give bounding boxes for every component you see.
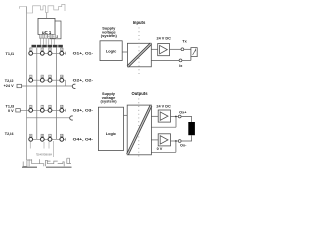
svg-text:0 V: 0 V [8, 109, 14, 113]
row 1 terminals [29, 51, 64, 55]
isolator diagonal (outputs) [128, 106, 152, 155]
svg-text:O3+, O3-: O3+, O3- [73, 109, 94, 113]
feed wire column A [36, 47, 38, 139]
svg-text:Ox-: Ox- [180, 144, 187, 148]
svg-text:O4+, O4-: O4+, O4- [73, 138, 94, 142]
row 1 clamp boxes [29, 48, 63, 51]
svg-text:Inputs: Inputs [133, 20, 146, 25]
isolator diagonal (inputs) [128, 44, 151, 67]
low bypass wire [151, 141, 176, 152]
microcontroller U2 (rear box) [50, 21, 61, 39]
wire logic to isolator (inputs) [122, 51, 127, 53]
load RL [188, 122, 195, 135]
driver amp high side [158, 110, 170, 122]
row 2 terminals [29, 78, 64, 82]
terminal Ox- [178, 140, 181, 143]
wire Ox+ to load [181, 117, 192, 123]
microcontroller U1 box [38, 18, 55, 34]
svg-text:µC 1: µC 1 [42, 30, 52, 35]
row 4 clamp boxes [29, 134, 63, 137]
+24V rail jumper contact arc [72, 84, 75, 88]
svg-text:0 V: 0 V [157, 147, 163, 151]
terminal Ix [179, 59, 182, 62]
svg-text:T1,I3: T1,I3 [6, 104, 15, 108]
wire isolator to low amp [151, 139, 158, 141]
svg-text:+24 V: +24 V [4, 84, 14, 88]
svg-text:O2+, O2-: O2+, O2- [73, 79, 94, 83]
wire isolator to high amp [151, 115, 158, 117]
dashed isolation line (inputs) [138, 28, 140, 77]
wire isolator to amp [151, 48, 157, 50]
logic block (inputs) [100, 41, 122, 61]
sensor S1 [191, 48, 197, 61]
row 3 clamp boxes [29, 105, 63, 108]
row 1 wire [31, 52, 66, 55]
driver amp low side [158, 134, 170, 146]
uC pin wires to bus bar [41, 38, 55, 45]
svg-text:750-497/000-004: 750-497/000-004 [36, 152, 52, 156]
module bottom contact comb [23, 158, 71, 166]
bottom dark contact bar left [22, 166, 37, 168]
svg-text:T1,I1: T1,I1 [6, 52, 15, 56]
dashed isolation line (outputs) [138, 99, 140, 158]
row 4 stubs to comb [30, 141, 53, 157]
row 3 wire [20, 109, 65, 112]
svg-text:2: 2 [56, 35, 58, 39]
0V rail [27, 117, 71, 119]
wire low amp to Ox- [171, 140, 179, 142]
svg-text:24 V DC: 24 V DC [157, 37, 172, 41]
driver amp (inputs) [158, 44, 170, 56]
high bypass wire [151, 117, 176, 128]
wire isolator to Ix [151, 59, 179, 61]
row 3 terminals [29, 108, 64, 112]
bus bar stubs to row1 [31, 46, 62, 49]
galvanic isolator (outputs) [127, 105, 151, 155]
wire comb to uC [46, 13, 48, 19]
wire amp to Tx [170, 48, 182, 50]
row 2 wire [31, 80, 66, 86]
svg-text:Logic: Logic [106, 48, 117, 53]
svg-text:T2,I2: T2,I2 [5, 79, 14, 83]
wire high amp to Ox+ [171, 116, 179, 118]
+24V rail [22, 85, 73, 87]
feed wire column B [56, 47, 58, 139]
terminal Tx [181, 48, 184, 51]
wire Tx to sensor [184, 48, 191, 50]
wire logic to isolator (outputs) [124, 114, 128, 116]
+24V terminal tab [17, 84, 22, 87]
logic block (outputs) [98, 107, 123, 150]
wire Ox- to load [181, 135, 192, 141]
row 4 wire [31, 138, 66, 141]
module left wall [26, 7, 28, 161]
uC pin row [39, 34, 55, 38]
junction low [175, 140, 177, 142]
svg-text:(system): (system) [101, 33, 118, 38]
svg-text:24 V DC: 24 V DC [156, 105, 171, 109]
svg-text:Ox+: Ox+ [179, 110, 187, 114]
row 2 clamp boxes [29, 75, 63, 78]
0V terminal tab [16, 109, 20, 112]
internal bus bar [32, 45, 63, 48]
wire Ix to sensor [182, 59, 191, 61]
svg-text:Logic: Logic [106, 131, 117, 136]
bottom dark contact bar right [46, 166, 72, 168]
0V rail jumper contact arc [70, 116, 73, 120]
junction high [175, 116, 177, 118]
galvanic isolator (inputs) [127, 43, 151, 67]
svg-text:Outputs: Outputs [131, 91, 148, 96]
sensor switch symbol [193, 49, 196, 55]
row 4 terminals [29, 137, 64, 141]
terminal Ox+ [178, 115, 181, 118]
svg-text:(system): (system) [100, 99, 117, 104]
svg-text:O1+, O1-: O1+, O1- [73, 52, 94, 56]
module top contact comb [20, 4, 65, 13]
svg-text:T2,I4: T2,I4 [5, 132, 15, 136]
